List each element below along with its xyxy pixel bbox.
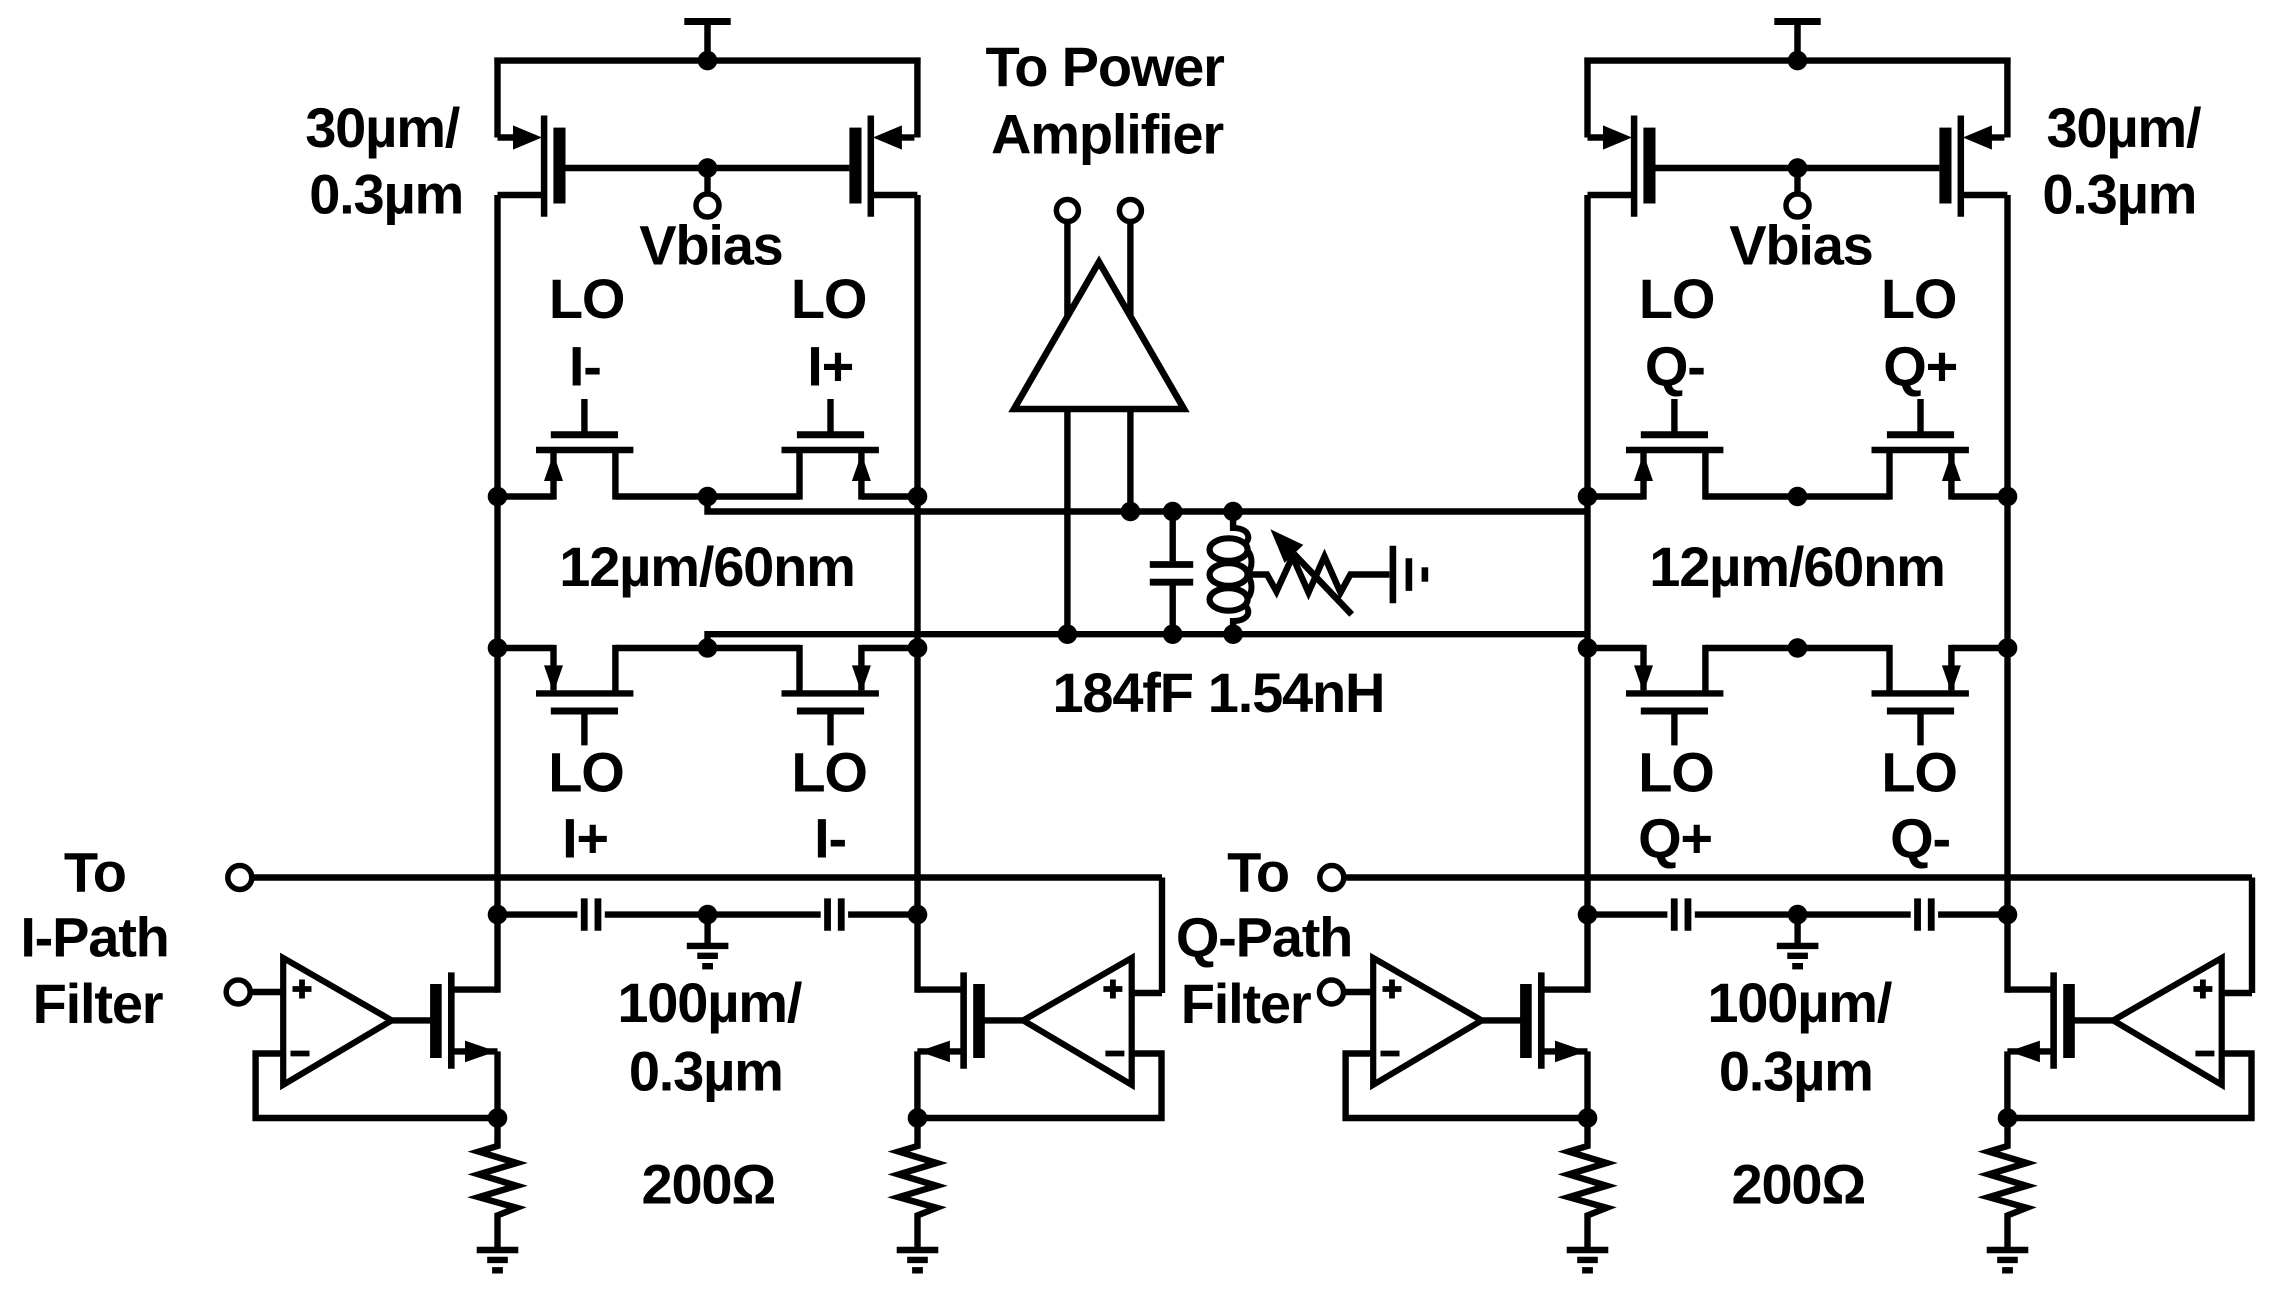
wire feedback left vertical (I): [256, 1054, 498, 1119]
transistor upper LO switch left 12µm/60nm (Q): [1626, 399, 1723, 500]
transistor lower LO switch left 12µm/60nm (I): [536, 645, 633, 746]
capacitor DC-block left (Q): [1674, 898, 1688, 930]
transistor input NMOS right 100µm/0.3µm (I): [917, 972, 984, 1121]
op-amp power amplifier triangle: [1014, 262, 1184, 409]
node cap center ground junction (I): [698, 905, 718, 925]
wire cap wire center-left (I): [605, 911, 708, 917]
wire + input riser (Q): [2249, 878, 2255, 994]
wire upper quad drain-to-center right (I): [708, 493, 800, 499]
transistor PMOS current source left 30µm/0.3µm (Q): [1588, 58, 1656, 217]
svg-text:100µm/: 100µm/: [1707, 971, 1892, 1034]
node source node left (I): [488, 1108, 508, 1128]
svg-text:LO: LO: [1881, 740, 1956, 803]
wire varistor arrow: [1270, 529, 1351, 614]
node VDD rail junction (I): [698, 51, 718, 71]
svg-text:LO: LO: [791, 740, 866, 803]
wire op-amp left output to gate (Q): [1482, 1017, 1521, 1023]
node upper quad left rail (I): [488, 487, 508, 507]
transistor upper LO switch right 12µm/60nm (Q): [1872, 399, 1969, 500]
power VDD supply symbol (I-section): [684, 22, 730, 64]
node source node right (Q): [1998, 1108, 2018, 1128]
op-amp buffer left (I): [283, 958, 392, 1085]
wire PA input stem left: [1064, 222, 1070, 317]
wire lower quad wire center-left (Q): [1705, 645, 1797, 651]
wire PMOS gate rail (Q): [1656, 165, 1940, 171]
wire feedback right vertical (I): [918, 1054, 1162, 1119]
svg-text:1.54nH: 1.54nH: [1208, 661, 1384, 724]
svg-text:I-: I-: [814, 807, 846, 870]
wire cap wire right (I): [848, 911, 917, 917]
ground varistor (rotated): [1393, 546, 1425, 603]
transistor lower LO switch right 12µm/60nm (I): [782, 645, 879, 746]
wire input wire to +riser (I): [251, 874, 1162, 880]
node PA right lead on V+ rail: [1121, 502, 1141, 522]
wire output rail V+ (top center): [708, 497, 1588, 512]
terminal input Q lower: [1320, 980, 1344, 1004]
wire PA output lead left: [1064, 409, 1070, 634]
transistor input NMOS left 100µm/0.3µm (Q): [1520, 972, 1587, 1121]
wire cap wire right (Q): [1938, 911, 2007, 917]
svg-text:I-: I-: [569, 334, 601, 397]
wire Vbias stub (Q): [1794, 168, 1800, 195]
wire upper quad drain-to-center left (Q): [1705, 493, 1797, 499]
svg-text:184fF: 184fF: [1052, 661, 1192, 724]
svg-text:Q-: Q-: [1890, 807, 1950, 870]
wire PA output lead right: [1127, 409, 1133, 512]
wire left drain rail (I): [494, 195, 500, 993]
wire lower quad wire center-left (I): [615, 645, 707, 651]
wire feedback left vertical (Q): [1346, 1054, 1588, 1119]
svg-text:0.3µm: 0.3µm: [309, 163, 463, 226]
transistor input NMOS left 100µm/0.3µm (I): [430, 972, 497, 1121]
svg-text:0.3µm: 0.3µm: [1719, 1039, 1873, 1102]
node VDD rail junction (Q): [1788, 51, 1808, 71]
node tank inductor bottom: [1223, 624, 1243, 644]
node lower quad left rail (Q): [1578, 638, 1598, 658]
wire center ground stem (Q): [1794, 915, 1800, 946]
wire right drain rail (Q): [2004, 195, 2010, 993]
resistor degeneration left 200Ω (Q): [1569, 1118, 1607, 1248]
svg-text:Q+: Q+: [1883, 334, 1957, 397]
svg-text:LO: LO: [1639, 267, 1714, 330]
wire lower quad wire right (Q): [1952, 645, 2008, 651]
node source node right (I): [908, 1108, 928, 1128]
svg-text:To: To: [64, 841, 126, 904]
inductor tank 1.54nH: [1210, 512, 1252, 635]
node lower quad input center (Q): [1788, 638, 1808, 658]
terminal input I lower: [226, 980, 250, 1004]
terminal input Q upper: [1320, 866, 1344, 890]
node tank cap bottom: [1163, 624, 1183, 644]
node upper quad right rail (Q): [1998, 487, 2018, 507]
wire center ground stem (I): [704, 915, 710, 946]
wire cap wire center-right (I): [708, 911, 821, 917]
node cap wire left rail (I): [488, 905, 508, 925]
transistor input NMOS right 100µm/0.3µm (Q): [2007, 972, 2074, 1121]
resistor degeneration right 200Ω (I): [899, 1118, 937, 1248]
wire upper quad source wire right (I): [862, 493, 918, 499]
wire lower quad wire center-right (Q): [1798, 645, 1890, 651]
node cap wire right rail (Q): [1998, 905, 2018, 925]
capacitor DC-block left (I): [584, 898, 598, 930]
node PA left lead on V- rail: [1058, 624, 1078, 644]
svg-text:200Ω: 200Ω: [642, 1153, 776, 1216]
wire upper quad drain-to-center left (I): [615, 493, 707, 499]
power VDD supply symbol (Q-section): [1774, 22, 1820, 64]
transistor upper LO switch right 12µm/60nm (I): [782, 399, 879, 500]
node upper quad output center (I): [698, 487, 718, 507]
svg-text:LO: LO: [791, 267, 866, 330]
node cap wire left rail (Q): [1578, 905, 1598, 925]
wire op-amp right output to gate (I): [984, 1017, 1023, 1023]
svg-text:I-Path: I-Path: [20, 905, 168, 968]
terminal PA input right: [1119, 200, 1141, 222]
node cap wire right rail (I): [908, 905, 928, 925]
terminal input I upper: [228, 866, 252, 890]
wire op-amp left + input stub (I): [250, 989, 284, 995]
terminal Vbias (I): [696, 194, 719, 217]
wire + input stub right op-amp (I): [1134, 990, 1162, 996]
node upper quad right rail (I): [908, 487, 928, 507]
svg-text:Filter: Filter: [33, 972, 163, 1035]
wire Vbias stub (I): [704, 168, 710, 195]
terminal PA input left: [1056, 200, 1078, 222]
svg-text:200Ω: 200Ω: [1732, 1153, 1866, 1216]
op-amp buffer left (Q): [1373, 958, 1482, 1085]
ground left resistor (Q): [1567, 1250, 1609, 1270]
wire input wire to +riser (Q): [1341, 874, 2252, 880]
ground center cap ground (Q): [1777, 946, 1819, 966]
transistor PMOS current source left 30µm/0.3µm (I): [498, 58, 566, 217]
capacitor DC-block right (Q): [1918, 898, 1932, 930]
capacitor DC-block right (I): [828, 898, 842, 930]
svg-text:30µm/: 30µm/: [305, 96, 461, 159]
wire cap wire left (I): [498, 911, 578, 917]
node source node left (Q): [1578, 1108, 1598, 1128]
wire cap wire left (Q): [1588, 911, 1668, 917]
svg-text:Q-: Q-: [1645, 334, 1705, 397]
node tank cap top: [1163, 502, 1183, 522]
svg-text:I+: I+: [562, 807, 608, 870]
wire left drain rail (Q): [1584, 195, 1590, 993]
ground right resistor (I): [897, 1250, 939, 1270]
wire lower quad wire left (I): [498, 645, 554, 651]
wire output rail V- (bottom center): [708, 634, 1588, 648]
node PMOS gate junction (I): [698, 158, 718, 178]
node upper quad left rail (Q): [1578, 487, 1598, 507]
ground left resistor (I): [477, 1250, 519, 1270]
node PMOS gate junction (Q): [1788, 158, 1808, 178]
wire lower quad wire center-right (I): [708, 645, 800, 651]
resistor degeneration left 200Ω (I): [479, 1118, 517, 1248]
wire op-amp right output to gate (Q): [2074, 1017, 2113, 1023]
wire PMOS gate rail (I): [566, 165, 850, 171]
transistor upper LO switch left 12µm/60nm (I): [536, 399, 633, 500]
wire upper quad source wire left (Q): [1588, 493, 1644, 499]
wire + input stub right op-amp (Q): [2224, 990, 2252, 996]
wire op-amp left + input stub (Q): [1340, 989, 1374, 995]
svg-text:LO: LO: [548, 740, 623, 803]
terminal Vbias (Q): [1786, 194, 1809, 217]
transistor PMOS current source right 30µm/0.3µm (I): [849, 58, 917, 217]
svg-text:12µm/60nm: 12µm/60nm: [559, 535, 854, 598]
wire upper quad drain-to-center right (Q): [1798, 493, 1890, 499]
op-amp buffer right (Q): [2113, 958, 2222, 1085]
wire VDD top rail (I): [494, 57, 920, 63]
wire op-amp left output to gate (I): [392, 1017, 431, 1023]
transistor lower LO switch left 12µm/60nm (Q): [1626, 645, 1723, 746]
node lower quad left rail (I): [488, 638, 508, 658]
svg-text:Vbias: Vbias: [639, 214, 782, 277]
svg-text:Q+: Q+: [1638, 807, 1712, 870]
capacitor tank 184fF: [1150, 512, 1193, 635]
node lower quad right rail (Q): [1998, 638, 2018, 658]
wire lower quad wire right (I): [862, 645, 918, 651]
wire PA input stem right: [1127, 222, 1133, 317]
svg-text:100µm/: 100µm/: [617, 971, 802, 1034]
wire upper quad source wire left (I): [498, 493, 554, 499]
svg-text:LO: LO: [549, 267, 624, 330]
svg-text:Filter: Filter: [1181, 972, 1311, 1035]
wire VDD top rail (Q): [1584, 57, 2010, 63]
wire cap wire center-right (Q): [1798, 911, 1911, 917]
svg-text:0.3µm: 0.3µm: [629, 1039, 783, 1102]
node tank inductor top: [1223, 502, 1243, 522]
svg-text:12µm/60nm: 12µm/60nm: [1649, 535, 1944, 598]
svg-text:30µm/: 30µm/: [2046, 96, 2202, 159]
wire lower quad wire left (Q): [1588, 645, 1644, 651]
op-amp buffer right (I): [1023, 958, 1131, 1085]
svg-text:I+: I+: [807, 334, 853, 397]
ground center cap ground (I): [687, 946, 729, 966]
svg-text:Vbias: Vbias: [1729, 214, 1872, 277]
transistor lower LO switch right 12µm/60nm (Q): [1872, 645, 1969, 746]
svg-text:To Power: To Power: [985, 35, 1224, 98]
wire cap wire center-left (Q): [1695, 911, 1798, 917]
resistor variable tuning (varistor): [1248, 557, 1390, 593]
resistor degeneration right 200Ω (Q): [1989, 1118, 2027, 1248]
svg-text:To: To: [1227, 841, 1289, 904]
svg-text:LO: LO: [1881, 267, 1956, 330]
node lower quad right rail (I): [908, 638, 928, 658]
wire upper quad source wire right (Q): [1952, 493, 2008, 499]
svg-text:0.3µm: 0.3µm: [2042, 163, 2196, 226]
node lower quad input center (I): [698, 638, 718, 658]
node cap center ground junction (Q): [1788, 905, 1808, 925]
node upper quad output center (Q): [1788, 487, 1808, 507]
wire feedback right vertical (Q): [2008, 1054, 2252, 1119]
wire + input riser (I): [1159, 878, 1165, 994]
wire right drain rail (I): [914, 195, 920, 993]
ground right resistor (Q): [1987, 1250, 2029, 1270]
transistor PMOS current source right 30µm/0.3µm (Q): [1939, 58, 2007, 217]
svg-text:Q-Path: Q-Path: [1176, 905, 1352, 968]
svg-text:LO: LO: [1638, 740, 1713, 803]
svg-text:Amplifier: Amplifier: [991, 103, 1223, 166]
